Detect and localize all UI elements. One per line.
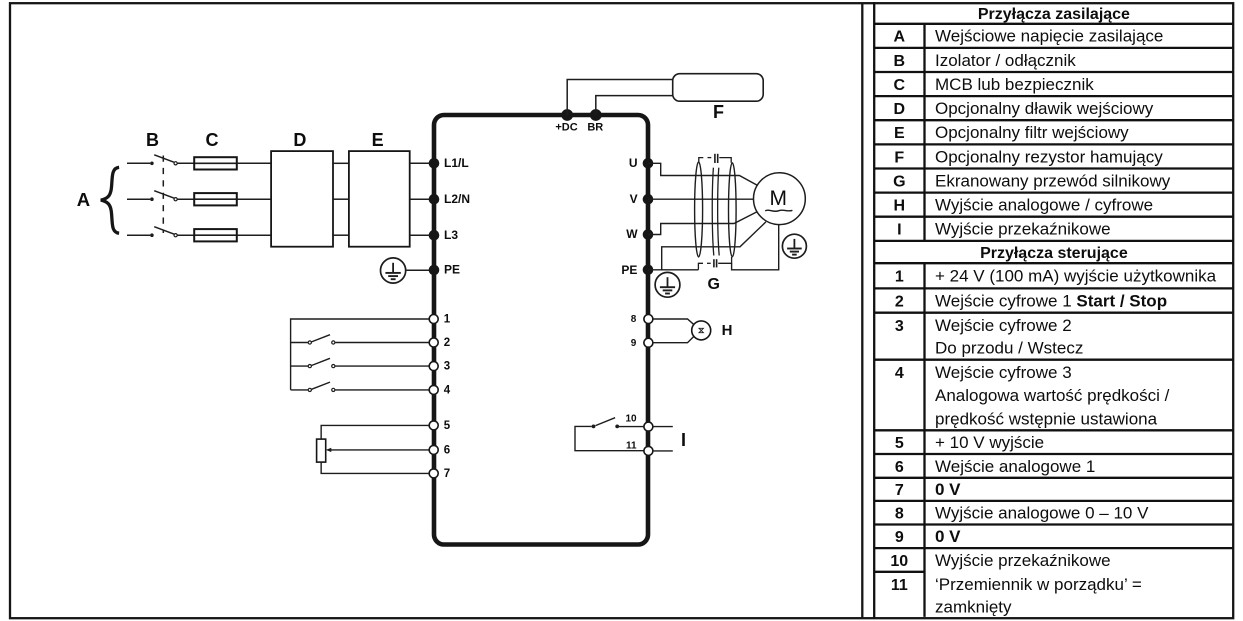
svg-text:0 V: 0 V: [935, 480, 961, 499]
input filter E: [349, 130, 410, 247]
svg-text:Wyjście przekaźnikowe: Wyjście przekaźnikowe: [935, 220, 1111, 239]
svg-text:5: 5: [444, 420, 451, 432]
svg-text:9: 9: [631, 338, 637, 349]
fuse C1: [194, 157, 237, 169]
svg-text:W: W: [626, 227, 638, 241]
svg-text:10: 10: [890, 553, 908, 570]
svg-text:D: D: [894, 101, 906, 118]
svg-text:PE: PE: [621, 263, 637, 277]
svg-text:Wyjście przekaźnikowe: Wyjście przekaźnikowe: [935, 551, 1111, 570]
svg-text:11: 11: [626, 440, 637, 451]
terminal 2: [429, 337, 450, 349]
svg-text:2: 2: [895, 293, 904, 310]
wire C1 to D: [237, 162, 271, 164]
svg-text:8: 8: [895, 506, 904, 523]
svg-text:Wejście analogowe 1: Wejście analogowe 1: [935, 457, 1095, 476]
svg-text:3: 3: [895, 318, 904, 335]
svg-text:prędkość wstępnie ustawiona: prędkość wstępnie ustawiona: [935, 410, 1158, 429]
shield inner conductor curves: [712, 168, 719, 256]
wire BR to brake resistor: [596, 96, 674, 115]
svg-text:L2/N: L2/N: [444, 192, 470, 206]
brace A: [77, 167, 119, 233]
wire V to motor: [648, 198, 754, 200]
svg-text:B: B: [894, 53, 906, 70]
svg-text:I: I: [681, 430, 686, 450]
svg-text:4: 4: [895, 365, 904, 382]
svg-text:Opcjonalny dławik wejściowy: Opcjonalny dławik wejściowy: [935, 99, 1154, 118]
svg-text:2: 2: [444, 337, 450, 349]
terminal 7: [429, 468, 450, 480]
svg-text:1: 1: [895, 269, 904, 286]
wire W to motor: [648, 212, 758, 235]
svg-text:+ 24 V (100 mA) wyjście użytko: + 24 V (100 mA) wyjście użytkownika: [935, 267, 1217, 286]
isolator switch B2: [150, 191, 177, 201]
motor M: [754, 173, 806, 225]
digital input switch row 3: [291, 358, 430, 367]
svg-text:PE: PE: [444, 263, 460, 277]
svg-text:C: C: [206, 130, 219, 150]
relay output I stubs: [653, 426, 673, 428]
svg-text:9: 9: [895, 529, 904, 546]
wire B3 to fuse C3: [178, 234, 196, 236]
terminal U: [629, 156, 653, 170]
isolator switch B1: [150, 155, 177, 165]
svg-text:5: 5: [895, 435, 904, 452]
terminal 11: [626, 440, 653, 455]
shield to motor frame bond: [732, 225, 779, 270]
supply phase 1: lead wire: [127, 162, 150, 164]
shield capacitance bottom: [698, 257, 731, 270]
svg-text:F: F: [894, 149, 904, 166]
shield right ellipse: [729, 163, 737, 257]
fuse C3: [194, 229, 237, 241]
svg-text:Izolator / odłącznik: Izolator / odłącznik: [935, 51, 1076, 70]
terminal BR: [587, 109, 603, 134]
terminal 4: [429, 384, 451, 396]
terminal 8: [631, 314, 653, 325]
shield left ellipse: [695, 162, 703, 257]
terminal L1/L: [429, 156, 469, 170]
terminal 6: [429, 444, 450, 456]
wire +DC to brake resistor: [567, 80, 673, 116]
terminal PE right: [621, 263, 653, 277]
supply phase 2: lead wire: [127, 198, 150, 200]
terminal L3: [429, 228, 459, 242]
legend table headers: [978, 6, 1130, 262]
svg-text:U: U: [629, 156, 638, 170]
svg-text:6: 6: [895, 459, 904, 476]
brake resistor F: [673, 74, 764, 123]
svg-text:Wejście cyfrowe 1 Start / Stop: Wejście cyfrowe 1 Start / Stop: [935, 291, 1167, 310]
relay contact switch: [575, 418, 644, 451]
svg-text:6: 6: [444, 444, 450, 456]
svg-text:MCB lub bezpiecznik: MCB lub bezpiecznik: [935, 75, 1094, 94]
svg-text:Wejście cyfrowe 2: Wejście cyfrowe 2: [935, 316, 1072, 335]
wire potentiometer to terminal 7: [321, 462, 429, 473]
svg-text:A: A: [77, 189, 90, 210]
ground symbol below PE right: [655, 272, 680, 297]
switch linkage dashed: [162, 156, 164, 234]
input choke D: [271, 130, 333, 247]
isolator switch B3: [150, 227, 177, 237]
wires E to drive terminals: [410, 163, 429, 235]
svg-text:M: M: [770, 187, 788, 210]
digital input switch row 4: [291, 382, 430, 391]
svg-text:1: 1: [444, 313, 451, 325]
svg-text:I: I: [897, 222, 901, 239]
svg-text:H: H: [894, 198, 906, 215]
svg-text:Opcjonalny rezystor hamujący: Opcjonalny rezystor hamujący: [935, 147, 1163, 166]
legend table grid: [874, 2, 1233, 618]
svg-text:BR: BR: [587, 122, 603, 134]
wire PE to motor earth: [648, 269, 698, 271]
potentiometer body: [317, 439, 326, 462]
wire terminal 5 to potentiometer: [321, 425, 429, 439]
terminal +DC: [555, 109, 577, 134]
svg-text:4: 4: [444, 384, 451, 396]
wire ground to PE left: [406, 269, 429, 271]
svg-text:E: E: [372, 130, 384, 150]
svg-text:+DC: +DC: [555, 122, 577, 134]
svg-text:10: 10: [625, 414, 637, 425]
inverter drive main box: [434, 115, 648, 545]
fuse C2: [194, 193, 237, 205]
wire C2 to D: [237, 198, 271, 200]
svg-text:L3: L3: [444, 228, 458, 242]
terminal 3: [429, 361, 450, 373]
svg-text:Do przodu / Wstecz: Do przodu / Wstecz: [935, 338, 1083, 357]
svg-text:3: 3: [444, 361, 450, 373]
terminal L2/N: [429, 192, 470, 206]
svg-text:Wyjście analogowe 0 – 10 V: Wyjście analogowe 0 – 10 V: [935, 504, 1149, 523]
svg-text:B: B: [146, 130, 159, 150]
wire C3 to D: [237, 234, 271, 236]
svg-text:8: 8: [631, 314, 637, 325]
supply phase 3: lead wire: [127, 234, 150, 236]
svg-text:11: 11: [891, 577, 908, 594]
legend table descriptions: [935, 27, 1217, 617]
wires D to E: [333, 163, 349, 235]
ground symbol motor: [782, 234, 806, 258]
svg-text:H: H: [722, 322, 733, 339]
terminal V: [630, 192, 654, 206]
svg-text:G: G: [707, 276, 719, 293]
svg-text:Ekranowany przewód silnikowy: Ekranowany przewód silnikowy: [935, 171, 1171, 190]
terminal PE left: [429, 263, 460, 277]
svg-text:Wejście cyfrowe 3: Wejście cyfrowe 3: [935, 363, 1072, 382]
svg-text:Analogowa wartość prędkości /: Analogowa wartość prędkości /: [935, 386, 1170, 405]
wire B1 to fuse C1: [178, 162, 196, 164]
svg-text:Wyjście analogowe / cyfrowe: Wyjście analogowe / cyfrowe: [935, 196, 1153, 215]
svg-text:0 V: 0 V: [935, 527, 961, 546]
svg-text:A: A: [894, 29, 906, 46]
svg-text:F: F: [713, 102, 724, 122]
svg-text:zamknięty: zamknięty: [935, 598, 1012, 617]
svg-text:7: 7: [895, 482, 904, 499]
legend table key column: [890, 29, 908, 594]
earth conductor riser: [662, 222, 766, 270]
shield capacitance top: [699, 154, 731, 163]
wire terminal 1 to bus: [291, 319, 429, 390]
svg-text:Wejściowe napięcie zasilające: Wejściowe napięcie zasilające: [935, 27, 1163, 46]
digital input switch row 2: [291, 335, 430, 344]
svg-text:+ 10 V wyjście: + 10 V wyjście: [935, 433, 1044, 452]
terminal 10: [625, 414, 652, 432]
terminal 1: [429, 313, 451, 325]
svg-text:‘Przemiennik w porządku’ =: ‘Przemiennik w porządku’ =: [935, 575, 1142, 594]
analog output H: [653, 319, 732, 343]
svg-text:Przyłącza sterujące: Przyłącza sterujące: [980, 245, 1128, 262]
svg-text:Przyłącza zasilające: Przyłącza zasilające: [978, 6, 1130, 23]
potentiometer wiper to terminal 6: [326, 448, 429, 452]
wire U to motor: [648, 163, 757, 185]
terminal W: [626, 227, 653, 241]
terminal 9: [631, 338, 653, 349]
ground symbol left PE: [381, 258, 406, 283]
terminal 5: [429, 420, 451, 432]
svg-text:L1/L: L1/L: [444, 156, 469, 170]
wire B2 to fuse C2: [178, 198, 196, 200]
svg-text:D: D: [293, 130, 306, 150]
svg-text:7: 7: [444, 468, 450, 480]
svg-text:C: C: [894, 77, 906, 94]
svg-text:V: V: [630, 192, 638, 206]
svg-text:Opcjonalny filtr wejściowy: Opcjonalny filtr wejściowy: [935, 123, 1129, 142]
svg-text:E: E: [894, 125, 905, 142]
svg-text:G: G: [893, 173, 905, 190]
